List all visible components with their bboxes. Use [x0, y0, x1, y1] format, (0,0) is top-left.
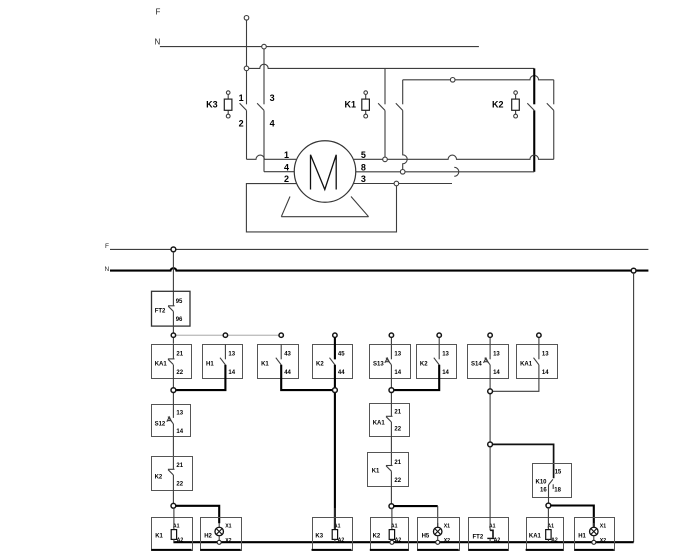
svg-text:H1: H1	[578, 534, 586, 540]
wire to motor terminal 1 (jumps over x=264)	[247, 155, 297, 159]
svg-text:N: N	[155, 38, 161, 47]
svg-text:X1: X1	[600, 523, 606, 529]
junction KA1 coil feed	[546, 503, 551, 508]
svg-text:13: 13	[493, 352, 500, 358]
contact K2 first (bold vertical, to motor 8)	[533, 68, 535, 104]
stub to branch 4	[334, 337, 336, 344]
svg-text:KA1: KA1	[155, 362, 168, 368]
svg-text:A2: A2	[338, 538, 345, 544]
stub to branch 7	[489, 337, 491, 344]
timer contact box K10 15-16-18	[533, 464, 572, 498]
thermal relay FT2 contact 95-96 box	[152, 291, 191, 326]
svg-text:FT2: FT2	[155, 308, 166, 314]
wire motor line 5 (jumps x=452.3 and x=534.25)	[354, 155, 554, 159]
wire N bus (top)	[160, 46, 479, 48]
wire pair4 connector	[492, 378, 539, 392]
motor M1 circle	[294, 141, 356, 203]
svg-text:F: F	[156, 8, 161, 17]
svg-text:1: 1	[239, 93, 244, 103]
relay contact box K2 21-22 (left)	[152, 457, 193, 491]
pushbutton S12 box 13-14	[152, 405, 191, 437]
terminal F	[244, 15, 249, 20]
junction inner loop	[450, 78, 455, 83]
svg-text:H5: H5	[422, 534, 430, 540]
junction pair1	[171, 388, 176, 393]
svg-text:A2: A2	[395, 538, 402, 544]
junction line 8 / K1	[400, 170, 405, 175]
svg-text:K1: K1	[344, 99, 356, 109]
wire branch to K10	[492, 444, 553, 478]
svg-text:44: 44	[284, 370, 291, 376]
svg-text:K3: K3	[315, 534, 323, 540]
svg-text:13: 13	[228, 352, 235, 358]
junction F bus	[244, 66, 249, 71]
svg-text:22: 22	[176, 482, 183, 488]
svg-text:X1: X1	[444, 523, 450, 529]
svg-text:14: 14	[394, 370, 401, 376]
svg-text:K1: K1	[155, 534, 163, 540]
svg-text:KA1: KA1	[520, 362, 533, 368]
svg-text:A2: A2	[551, 538, 558, 544]
wire c5 drop	[390, 378, 392, 404]
svg-text:16: 16	[540, 488, 547, 494]
junction K2 coil feed	[389, 504, 394, 509]
svg-text:96: 96	[176, 317, 183, 323]
relay coil K3 box	[313, 518, 353, 551]
svg-text:K1: K1	[261, 362, 269, 368]
svg-text:2: 2	[239, 118, 244, 128]
svg-text:21: 21	[176, 463, 183, 469]
relay contact box S14 13-14	[468, 345, 509, 379]
thermal element FT2 box	[469, 518, 509, 551]
junction line 3	[394, 181, 399, 186]
junction F control	[171, 247, 176, 252]
svg-text:22: 22	[176, 370, 183, 376]
svg-text:4: 4	[270, 118, 275, 128]
relay contact box K1 43-44	[258, 345, 299, 379]
svg-text:21: 21	[394, 460, 401, 466]
svg-text:A2: A2	[177, 538, 184, 544]
svg-text:KA1: KA1	[529, 534, 542, 540]
svg-text:S13: S13	[373, 362, 384, 368]
wire control feed bus (faint)	[173, 334, 281, 336]
motor mount	[281, 197, 368, 217]
svg-text:14: 14	[493, 370, 500, 376]
wire to motor terminal 4	[264, 171, 296, 173]
svg-text:S14: S14	[471, 362, 482, 368]
wire pair1 connector (bold)	[176, 378, 226, 391]
svg-text:K2: K2	[373, 534, 381, 540]
wire pair3 connector (bold)	[394, 378, 440, 391]
wire F drop from top terminal	[246, 20, 248, 104]
relay contact box KA1 21-22 (mid)	[370, 404, 410, 437]
wire c4 bold drop	[334, 337, 336, 359]
wire lamp H2 feed (bold)	[176, 506, 220, 523]
wire pair2 connector (bold)	[281, 378, 333, 391]
svg-text:8: 8	[361, 162, 366, 172]
wire bottom N rail (bold)	[173, 541, 633, 543]
contact K3 1-2	[240, 103, 247, 110]
svg-text:FT2: FT2	[473, 535, 484, 541]
contactor K3 coil	[227, 94, 229, 99]
svg-text:2: 2	[284, 174, 289, 184]
svg-text:43: 43	[284, 352, 291, 358]
svg-text:K10: K10	[536, 480, 548, 486]
relay coil KA1 box	[527, 518, 564, 551]
svg-text:F: F	[105, 243, 109, 250]
junction on N bus	[262, 44, 267, 49]
wire lamp H5 feed (bold)	[394, 505, 438, 507]
contactor K2 coil	[515, 94, 517, 99]
svg-text:X2: X2	[444, 538, 450, 544]
wire c1 through junction	[172, 378, 174, 404]
svg-text:22: 22	[394, 478, 401, 484]
relay contact box KA1 21-22	[152, 345, 192, 379]
motor letter M	[311, 155, 337, 190]
wire lamp H1 feed (bold)	[551, 506, 594, 527]
svg-text:14: 14	[442, 370, 449, 376]
svg-text:95: 95	[176, 299, 183, 305]
relay contact box S13 13-14	[370, 345, 411, 379]
relay contact box KA1 13-14	[517, 345, 558, 379]
svg-text:K2: K2	[316, 362, 324, 368]
svg-text:X2: X2	[600, 538, 606, 544]
stub to branch 8	[538, 337, 540, 344]
svg-text:A2: A2	[494, 538, 501, 544]
svg-text:K2: K2	[492, 99, 504, 109]
junction N control right	[631, 268, 636, 273]
wire right return drop	[633, 273, 635, 542]
wire motor line 8	[354, 171, 534, 173]
contactor K1 coil	[365, 94, 367, 99]
svg-text:K1: K1	[372, 468, 380, 474]
wire drop from N junction through contact K3.3-4	[263, 49, 265, 104]
stub to branch 6	[438, 337, 440, 344]
wire c7 drop	[489, 378, 491, 447]
junction K1 coil feed	[171, 503, 176, 508]
svg-text:44: 44	[338, 370, 345, 376]
contact K10 blade	[549, 479, 553, 485]
svg-text:13: 13	[176, 410, 183, 416]
svg-text:13: 13	[394, 352, 401, 358]
svg-text:K2: K2	[420, 362, 428, 368]
lamp H1 box	[575, 518, 615, 551]
wire motor line 3	[354, 183, 452, 185]
relay contact box K2 45-44	[313, 345, 353, 379]
relay contact box H1 13-14	[203, 345, 243, 379]
wire motor line 2 loop to line 3	[246, 184, 396, 232]
contact K1 second (to motor 8, jumps line 5)	[402, 80, 404, 105]
wire N control bus (bold, jumps over FT drop)	[110, 268, 648, 270]
svg-text:S12: S12	[155, 421, 166, 427]
svg-text:21: 21	[176, 352, 183, 358]
wire FT drop	[172, 252, 174, 306]
svg-text:N: N	[105, 266, 110, 273]
svg-text:14: 14	[542, 370, 549, 376]
svg-text:X1: X1	[225, 523, 231, 529]
svg-text:H1: H1	[206, 362, 214, 368]
svg-text:5: 5	[361, 150, 366, 160]
junction c7 branch	[488, 442, 493, 447]
wire F control bus	[110, 248, 648, 250]
contact K3 3-4 blade	[257, 103, 264, 110]
junction pair2	[333, 388, 338, 393]
junction pair3	[389, 388, 394, 393]
svg-text:K2: K2	[155, 474, 163, 480]
terminal circles on feed bus	[171, 333, 175, 337]
svg-text:3: 3	[270, 93, 275, 103]
svg-text:45: 45	[338, 352, 345, 358]
lamp H5 box	[418, 518, 460, 551]
svg-text:4: 4	[284, 162, 289, 172]
svg-text:13: 13	[542, 352, 549, 358]
contact K2 second	[553, 80, 555, 105]
svg-text:3: 3	[361, 174, 366, 184]
junction pair4	[488, 389, 493, 394]
relay coil K2 box	[371, 518, 409, 551]
svg-text:KA1: KA1	[373, 421, 386, 427]
svg-text:15: 15	[555, 470, 562, 476]
contact FT2 NC blade	[168, 305, 175, 307]
relay contact box K2 13-14	[417, 345, 457, 379]
svg-text:21: 21	[394, 409, 401, 415]
wire F bus horizontal (jumps over vertical at x=264)	[247, 64, 535, 68]
relay contact box K1 21-22 (mid)	[368, 453, 409, 487]
svg-text:13: 13	[442, 352, 449, 358]
relay coil K1 box	[152, 518, 193, 551]
svg-text:K3: K3	[206, 99, 218, 109]
svg-text:18: 18	[554, 488, 561, 494]
junction line 5 / K1	[383, 157, 388, 162]
lamp H2 box	[201, 518, 242, 551]
svg-text:22: 22	[394, 427, 401, 433]
svg-text:14: 14	[176, 429, 183, 435]
svg-text:X2: X2	[225, 538, 231, 544]
crossing arc on line 8	[454, 167, 459, 176]
svg-text:1: 1	[284, 150, 289, 160]
wire inner loop top (jumps over bold vertical)	[403, 76, 554, 80]
contact K1 first (to motor 5)	[384, 68, 386, 104]
stub to branch 5	[390, 337, 392, 344]
svg-text:H2: H2	[204, 534, 212, 540]
svg-text:14: 14	[228, 370, 235, 376]
